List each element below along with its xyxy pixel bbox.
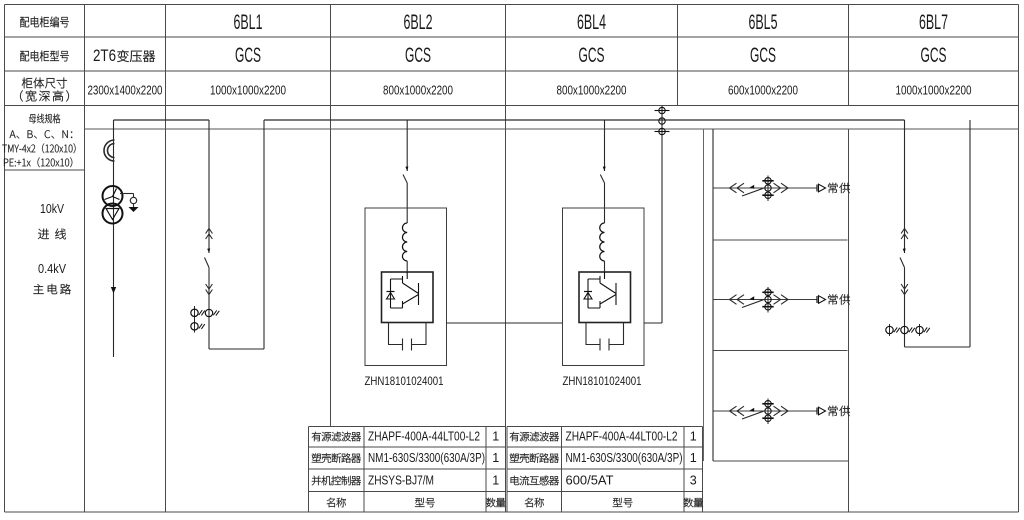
svg-text:3: 3 bbox=[690, 474, 697, 488]
svg-text:ZHSYS-BJ7/M: ZHSYS-BJ7/M bbox=[368, 473, 434, 488]
svg-text:1000x1000x2200: 1000x1000x2200 bbox=[210, 83, 286, 98]
svg-text:NM1-630S/3300(630A/3P): NM1-630S/3300(630A/3P) bbox=[566, 450, 683, 465]
svg-text:1000x1000x2200: 1000x1000x2200 bbox=[896, 83, 972, 98]
svg-text:1: 1 bbox=[492, 474, 499, 488]
svg-text:2300x1400x2200: 2300x1400x2200 bbox=[88, 83, 163, 98]
svg-text:ZHN18101024001: ZHN18101024001 bbox=[365, 374, 444, 388]
svg-text:6BL7: 6BL7 bbox=[919, 11, 948, 34]
svg-text:600x1000x2200: 600x1000x2200 bbox=[728, 83, 798, 98]
svg-text:6BL5: 6BL5 bbox=[749, 11, 778, 34]
svg-text:800x1000x2200: 800x1000x2200 bbox=[557, 83, 627, 98]
svg-text:800x1000x2200: 800x1000x2200 bbox=[383, 83, 453, 98]
svg-text:1: 1 bbox=[492, 451, 499, 465]
svg-text:0.4kV: 0.4kV bbox=[38, 261, 66, 276]
svg-text:ZHAPF-400A-44LT00-L2: ZHAPF-400A-44LT00-L2 bbox=[368, 429, 480, 444]
svg-text:2T6: 2T6 bbox=[93, 46, 116, 65]
svg-text:GCS: GCS bbox=[235, 44, 261, 67]
svg-text:6BL2: 6BL2 bbox=[404, 11, 433, 34]
svg-text:ZHAPF-400A-44LT00-L2: ZHAPF-400A-44LT00-L2 bbox=[566, 429, 678, 444]
svg-text:GCS: GCS bbox=[921, 44, 947, 67]
svg-text:ZHN18101024001: ZHN18101024001 bbox=[563, 374, 642, 388]
svg-text:NM1-630S/3300(630A/3P): NM1-630S/3300(630A/3P) bbox=[368, 450, 485, 465]
svg-text:1: 1 bbox=[690, 430, 697, 444]
svg-text:GCS: GCS bbox=[405, 44, 431, 67]
svg-text:GCS: GCS bbox=[579, 44, 605, 67]
svg-text:6BL4: 6BL4 bbox=[577, 11, 606, 34]
svg-text:10kV: 10kV bbox=[40, 201, 64, 216]
svg-text:1: 1 bbox=[690, 451, 697, 465]
svg-text:6BL1: 6BL1 bbox=[234, 11, 263, 34]
svg-text:1: 1 bbox=[492, 430, 499, 444]
svg-text:GCS: GCS bbox=[750, 44, 776, 67]
svg-text:600/5AT: 600/5AT bbox=[566, 473, 614, 488]
